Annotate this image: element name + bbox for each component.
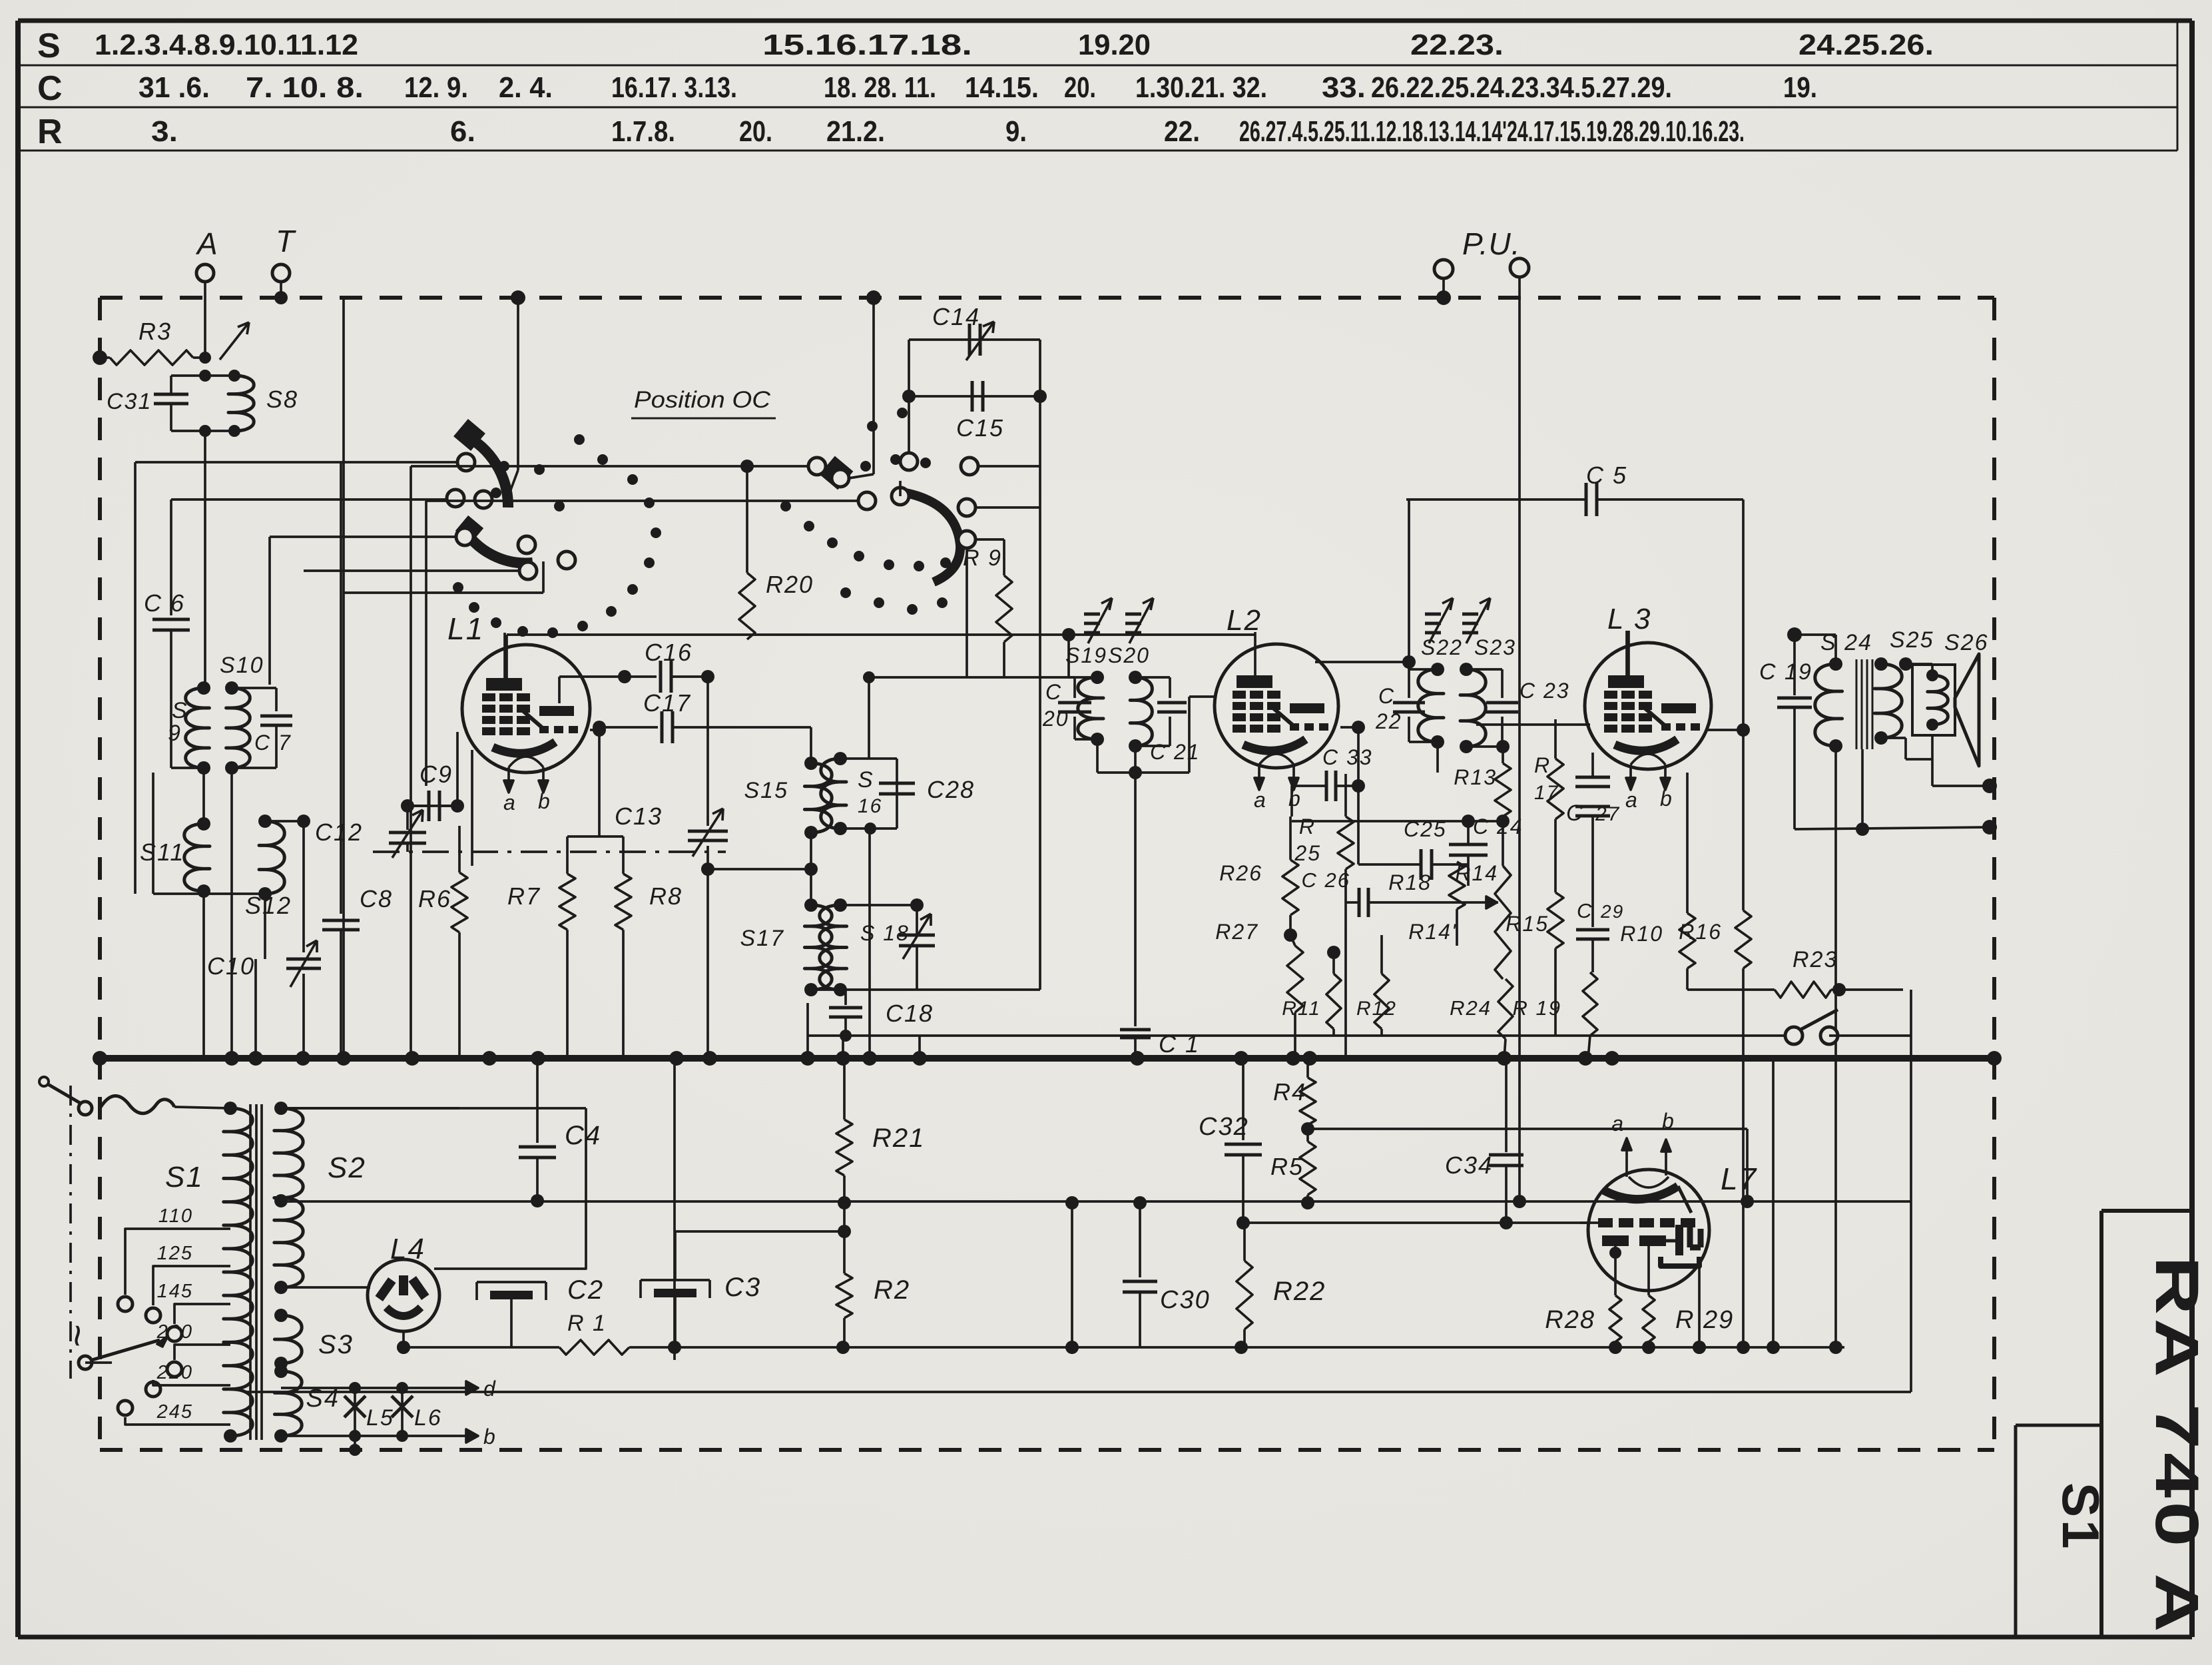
svg-text:L6: L6: [414, 1405, 442, 1431]
svg-text:9: 9: [168, 721, 182, 746]
svg-text:L 3: L 3: [1607, 603, 1651, 635]
svg-text:26.22.25.24.23.34.5.27.29.: 26.22.25.24.23.34.5.27.29.: [1371, 71, 1672, 104]
svg-text:145: 145: [157, 1281, 193, 1302]
svg-text:R 9: R 9: [963, 545, 1002, 571]
svg-text:31 .6.: 31 .6.: [138, 71, 210, 104]
svg-text:S19: S19: [1065, 643, 1107, 667]
svg-text:C: C: [1378, 684, 1395, 708]
svg-text:C 1: C 1: [1159, 1030, 1200, 1058]
svg-text:C12: C12: [315, 819, 363, 846]
svg-text:2. 4.: 2. 4.: [499, 71, 553, 104]
svg-text:R22: R22: [1273, 1277, 1326, 1306]
svg-text:C34: C34: [1445, 1152, 1493, 1179]
svg-text:R: R: [1534, 753, 1551, 777]
svg-text:C28: C28: [927, 776, 975, 803]
svg-text:14.15.: 14.15.: [965, 71, 1039, 104]
svg-text:R14: R14: [1455, 861, 1498, 885]
svg-text:3.: 3.: [151, 115, 178, 148]
svg-text:S 24: S 24: [1820, 630, 1872, 655]
svg-text:18. 28. 11.: 18. 28. 11.: [824, 71, 936, 104]
svg-text:a: a: [1254, 788, 1267, 812]
svg-text:S1: S1: [2052, 1483, 2110, 1551]
svg-text:A: A: [195, 226, 218, 261]
svg-text:R10: R10: [1620, 922, 1663, 946]
svg-text:R26: R26: [1219, 861, 1262, 885]
svg-text:S2: S2: [328, 1152, 366, 1184]
svg-text:125: 125: [157, 1243, 193, 1264]
svg-text:C2: C2: [567, 1275, 604, 1305]
svg-text:C: C: [1566, 801, 1584, 826]
svg-text:27: 27: [1595, 803, 1620, 825]
svg-text:R23: R23: [1793, 947, 1838, 972]
svg-text:R27: R27: [1215, 920, 1258, 944]
svg-text:C 21: C 21: [1150, 740, 1201, 764]
svg-text:C 26: C 26: [1302, 868, 1350, 892]
svg-text:R15: R15: [1506, 912, 1549, 936]
svg-text:Position OC: Position OC: [634, 387, 771, 413]
svg-text:R13: R13: [1454, 765, 1497, 789]
svg-text:S25: S25: [1890, 627, 1934, 653]
svg-text:S8: S8: [266, 386, 298, 413]
svg-text:C 23: C 23: [1520, 679, 1570, 703]
svg-text:22.23.: 22.23.: [1410, 29, 1504, 61]
svg-text:b: b: [1660, 787, 1673, 811]
svg-text:C: C: [1577, 899, 1593, 922]
svg-text:R2: R2: [874, 1275, 910, 1305]
svg-text:S 18: S 18: [860, 921, 910, 945]
svg-text:RA 740 A: RA 740 A: [2143, 1256, 2211, 1636]
svg-text:C8: C8: [360, 885, 393, 912]
svg-text:S22: S22: [1421, 635, 1463, 659]
svg-text:a: a: [503, 791, 517, 815]
svg-text:S10: S10: [220, 653, 264, 678]
svg-text:R 1: R 1: [567, 1311, 607, 1336]
svg-text:17: 17: [1534, 782, 1559, 804]
svg-text:R6: R6: [418, 885, 451, 912]
svg-text:C 19: C 19: [1759, 659, 1812, 685]
svg-text:15.16.17.18.: 15.16.17.18.: [762, 29, 972, 61]
svg-text:R7: R7: [507, 882, 541, 910]
svg-text:R8: R8: [649, 882, 683, 910]
svg-text:P.U.: P.U.: [1462, 226, 1521, 261]
svg-text:R28: R28: [1545, 1306, 1595, 1334]
svg-text:C 33: C 33: [1322, 745, 1373, 769]
svg-text:33.: 33.: [1322, 71, 1366, 104]
svg-text:C16: C16: [645, 639, 692, 666]
svg-text:20.: 20.: [1064, 71, 1096, 104]
svg-text:S3: S3: [318, 1330, 354, 1359]
svg-text:20.: 20.: [739, 115, 772, 148]
svg-text:C9: C9: [419, 761, 453, 788]
svg-text:R18: R18: [1388, 870, 1432, 894]
svg-text:b: b: [538, 789, 551, 813]
svg-text:245: 245: [156, 1401, 193, 1423]
svg-text:C31: C31: [107, 389, 152, 414]
svg-text:C18: C18: [886, 1000, 934, 1027]
svg-text:C4: C4: [565, 1121, 601, 1150]
svg-text:T: T: [276, 224, 296, 258]
svg-text:a: a: [1625, 788, 1639, 812]
svg-text:R 29: R 29: [1675, 1306, 1734, 1334]
svg-text:R: R: [1299, 815, 1316, 838]
svg-text:25: 25: [1294, 841, 1321, 865]
svg-text:1.2.3.4.8.9.10.11.12: 1.2.3.4.8.9.10.11.12: [95, 29, 358, 61]
svg-text:L1: L1: [447, 611, 484, 646]
svg-text:110: 110: [158, 1205, 193, 1227]
svg-text:1.30.21. 32.: 1.30.21. 32.: [1135, 71, 1267, 104]
svg-text:C15: C15: [956, 414, 1004, 442]
svg-text:R 19: R 19: [1513, 996, 1561, 1020]
svg-text:C 6: C 6: [144, 589, 185, 617]
svg-text:L2: L2: [1227, 604, 1262, 637]
svg-text:29: 29: [1600, 901, 1624, 922]
svg-text:R11: R11: [1282, 998, 1321, 1020]
svg-text:S: S: [858, 767, 874, 793]
svg-text:S20: S20: [1108, 643, 1150, 667]
svg-text:S15: S15: [744, 778, 789, 803]
svg-text:C: C: [37, 69, 64, 108]
svg-text:C 7: C 7: [254, 731, 292, 755]
svg-text:R16: R16: [1679, 920, 1722, 944]
svg-text:b: b: [1662, 1109, 1675, 1133]
svg-text:C30: C30: [1160, 1286, 1211, 1314]
svg-text:16.17. 3.13.: 16.17. 3.13.: [611, 71, 737, 104]
svg-text:R12: R12: [1356, 998, 1397, 1020]
svg-text:22.: 22.: [1164, 115, 1200, 148]
svg-text:1.7.8.: 1.7.8.: [611, 115, 675, 148]
svg-text:21.2.: 21.2.: [826, 115, 885, 148]
svg-text:b: b: [1288, 787, 1302, 811]
svg-text:9.: 9.: [1005, 115, 1027, 148]
svg-text:L4: L4: [390, 1233, 425, 1265]
svg-text:R20: R20: [766, 571, 814, 598]
svg-text:S23: S23: [1474, 635, 1516, 659]
svg-text:16: 16: [858, 795, 882, 817]
svg-text:S26: S26: [1944, 630, 1989, 655]
svg-text:S1: S1: [165, 1161, 204, 1193]
svg-text:R: R: [37, 113, 64, 151]
svg-text:R24: R24: [1450, 996, 1492, 1020]
svg-text:24.25.26.: 24.25.26.: [1798, 29, 1934, 61]
svg-text:~: ~: [55, 1324, 100, 1349]
svg-text:6.: 6.: [450, 115, 475, 148]
svg-text:7. 10. 8.: 7. 10. 8.: [246, 71, 364, 104]
svg-text:C 5: C 5: [1586, 462, 1627, 489]
svg-text:R5: R5: [1270, 1153, 1304, 1180]
svg-text:a: a: [1611, 1112, 1625, 1136]
svg-text:19.: 19.: [1783, 71, 1817, 104]
svg-text:R3: R3: [138, 318, 172, 345]
svg-text:L7: L7: [1721, 1162, 1757, 1196]
svg-text:R21: R21: [872, 1124, 925, 1153]
svg-text:d: d: [483, 1377, 497, 1401]
svg-text:C17: C17: [643, 689, 691, 717]
svg-text:S17: S17: [740, 926, 785, 951]
svg-text:R14': R14': [1408, 920, 1457, 944]
svg-text:b: b: [483, 1425, 497, 1449]
svg-text:R4: R4: [1273, 1078, 1306, 1106]
svg-text:C: C: [1045, 680, 1062, 704]
svg-text:C13: C13: [615, 803, 663, 830]
svg-text:C3: C3: [724, 1273, 761, 1302]
svg-text:C32: C32: [1199, 1113, 1249, 1141]
svg-text:19.20: 19.20: [1078, 29, 1151, 61]
svg-text:C14: C14: [932, 303, 980, 330]
svg-text:S11: S11: [140, 838, 184, 866]
svg-text:20: 20: [1042, 707, 1069, 731]
svg-text:L5: L5: [366, 1405, 394, 1431]
svg-text:12. 9.: 12. 9.: [404, 71, 468, 104]
svg-text:26.27.4.5.25.11.12.18.13.14.14: 26.27.4.5.25.11.12.18.13.14.14'24.17.15.…: [1239, 115, 1745, 148]
svg-text:S: S: [37, 27, 62, 65]
